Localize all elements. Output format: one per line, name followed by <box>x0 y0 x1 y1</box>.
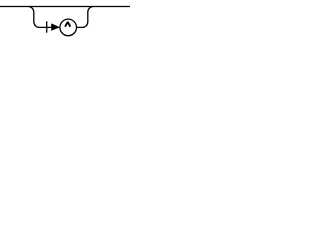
chevron symbol inside detector <box>65 22 70 27</box>
wire: right return to feedline <box>77 7 94 28</box>
wire: top horizontal feedline <box>0 6 130 8</box>
arrowhead: signal direction into detector <box>51 23 60 30</box>
capacitor plate (vertical bar) <box>46 21 48 32</box>
wire: left coupling drop from feedline <box>28 7 52 28</box>
detector circle <box>60 19 77 36</box>
